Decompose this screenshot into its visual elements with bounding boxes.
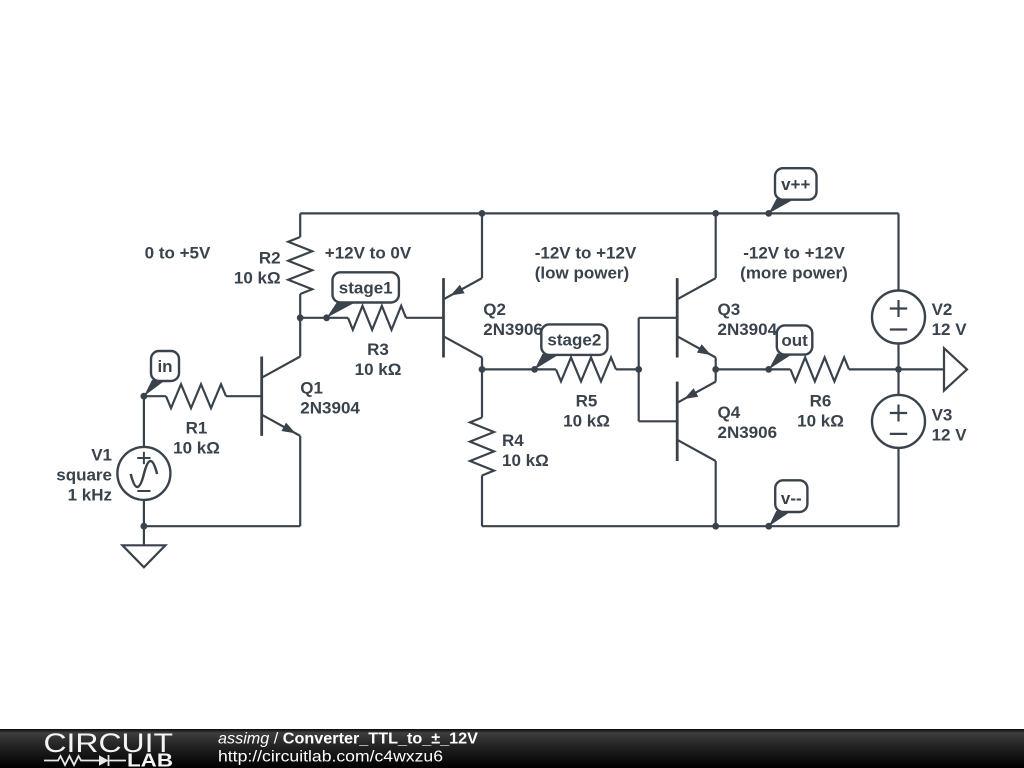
svg-text:http://circuitlab.com/c4wxzu6: http://circuitlab.com/c4wxzu6 xyxy=(218,749,443,766)
svg-text:R6: R6 xyxy=(810,392,832,411)
node ground node xyxy=(141,523,148,530)
svg-text:12 V: 12 V xyxy=(932,320,968,339)
transistor Q1 (NPN) xyxy=(262,357,301,436)
node Q3/Q4 base junction xyxy=(635,366,642,373)
wire bottom bus v-- rail xyxy=(482,525,899,527)
transistor Q4 (PNP) xyxy=(677,382,716,461)
wire V1 top to in node xyxy=(143,396,145,447)
resistor R4 xyxy=(470,369,494,526)
resistor R6 xyxy=(791,357,850,381)
node v-- attach node xyxy=(765,523,772,530)
svg-text:Q3: Q3 xyxy=(718,300,741,319)
resistor R1 xyxy=(144,395,166,397)
transistor Q3 (NPN) xyxy=(677,278,716,357)
svg-text:stage1: stage1 xyxy=(339,279,393,298)
svg-text:Q1: Q1 xyxy=(300,379,323,398)
svg-text:R4: R4 xyxy=(502,431,524,450)
wire Q2 collector down xyxy=(481,358,483,370)
wire junction to stage1 node xyxy=(300,317,348,319)
node stage1 attach node xyxy=(323,314,330,321)
wire out node wire xyxy=(716,368,791,370)
flag v++ xyxy=(769,168,817,213)
wire base tee vertical xyxy=(638,318,640,422)
wire out node to output arrow xyxy=(899,368,945,370)
node collector Q1 / R2 / R3 junction xyxy=(297,314,304,321)
wire top bus v++ rail xyxy=(300,212,898,214)
svg-text:V1: V1 xyxy=(91,446,112,465)
flag stage1 xyxy=(327,272,399,318)
svg-text:R1: R1 xyxy=(186,419,208,438)
svg-text:v++: v++ xyxy=(781,175,810,194)
resistor R5 xyxy=(556,357,616,381)
svg-text:10 kΩ: 10 kΩ xyxy=(502,451,549,470)
wire Q2 emitter up xyxy=(481,213,483,278)
svg-text:2N3904: 2N3904 xyxy=(300,399,360,418)
node emitters out junction xyxy=(712,366,719,373)
wire Q4 collector down xyxy=(715,461,717,526)
svg-text:square: square xyxy=(56,466,112,485)
wire node to stage2 xyxy=(482,368,556,370)
svg-text:Q2: Q2 xyxy=(483,300,506,319)
svg-text:10 kΩ: 10 kΩ xyxy=(797,412,844,431)
svg-text:in: in xyxy=(157,357,172,376)
svg-text:V3: V3 xyxy=(932,406,953,425)
svg-text:V2: V2 xyxy=(932,300,953,319)
svg-text:2N3906: 2N3906 xyxy=(718,423,778,442)
wire Q1 emitter rail to V1 xyxy=(144,525,300,527)
svg-text:10 kΩ: 10 kΩ xyxy=(355,360,402,379)
svg-text:R2: R2 xyxy=(259,249,281,268)
svg-text:assimg / Converter_TTL_to_±_12: assimg / Converter_TTL_to_±_12V xyxy=(218,731,478,748)
node V2/V3 mid junction xyxy=(895,366,902,373)
svg-text:10 kΩ: 10 kΩ xyxy=(173,439,220,458)
node out attach node xyxy=(765,366,772,373)
CircuitLab logo xyxy=(44,728,174,768)
svg-text:10 kΩ: 10 kΩ xyxy=(563,412,610,431)
svg-text:10 kΩ: 10 kΩ xyxy=(234,269,281,288)
node Q3 collector bus junction xyxy=(712,210,719,217)
node Q2 emitter top bus junction xyxy=(479,210,486,217)
svg-text:(more power): (more power) xyxy=(740,264,848,283)
flag v-- xyxy=(769,480,808,526)
resistor R2 xyxy=(288,213,312,317)
wire V2 bottom to out node xyxy=(897,343,899,369)
wire Q1 collector up xyxy=(299,318,301,357)
svg-text:2N3904: 2N3904 xyxy=(718,320,778,339)
wire R5 to base node xyxy=(616,368,639,370)
ground xyxy=(122,526,165,567)
output port arrow xyxy=(944,348,967,390)
svg-text:2N3906: 2N3906 xyxy=(483,320,543,339)
svg-text:1 kHz: 1 kHz xyxy=(68,486,112,505)
node Q2 collector / R4 junction xyxy=(479,366,486,373)
svg-text:(low power): (low power) xyxy=(535,264,629,283)
svg-text:R3: R3 xyxy=(367,340,389,359)
wire V1 bottom to ground node xyxy=(143,500,145,526)
source V3 (12 V) xyxy=(872,395,925,448)
wire Q1 emitter down xyxy=(299,436,301,526)
svg-text:+12V to 0V: +12V to 0V xyxy=(325,244,412,263)
wire right drop to V2 xyxy=(897,213,899,290)
svg-text:R5: R5 xyxy=(576,392,598,411)
wire Q4 emitter up xyxy=(715,369,717,381)
wire R3 to Q2 base xyxy=(406,317,444,319)
resistor R3 xyxy=(348,306,406,330)
svg-text:LAB: LAB xyxy=(127,751,173,768)
node stage2 attach node xyxy=(531,366,538,373)
flag stage2 xyxy=(535,324,608,369)
svg-text:out: out xyxy=(781,331,808,350)
wire Q3 collector up xyxy=(715,213,717,278)
source V2 (12 V) xyxy=(872,291,925,344)
wire base tee to Q3 xyxy=(639,317,678,319)
source V1 (square 1 kHz) xyxy=(117,447,170,500)
svg-text:12 V: 12 V xyxy=(932,426,968,445)
svg-text:0 to +5V: 0 to +5V xyxy=(145,244,211,263)
wire out node to V3 top xyxy=(897,369,899,395)
node v++ attach node xyxy=(765,210,772,217)
flag out xyxy=(769,325,813,369)
svg-text:-12V to +12V: -12V to +12V xyxy=(535,244,637,263)
node in attach node xyxy=(141,393,148,400)
wire V3 bottom to bus xyxy=(897,448,899,526)
wire R6 to supply node xyxy=(849,368,899,370)
wire Q3 emitter down xyxy=(715,358,717,370)
wire base tee to Q4 xyxy=(639,420,678,422)
transistor Q2 (PNP) xyxy=(444,278,483,357)
svg-text:-12V to +12V: -12V to +12V xyxy=(743,244,845,263)
svg-text:Q4: Q4 xyxy=(718,403,741,422)
flag in xyxy=(144,351,179,396)
svg-text:stage2: stage2 xyxy=(547,331,601,350)
svg-text:v--: v-- xyxy=(781,489,802,508)
node Q4 collector bus junction xyxy=(712,523,719,530)
